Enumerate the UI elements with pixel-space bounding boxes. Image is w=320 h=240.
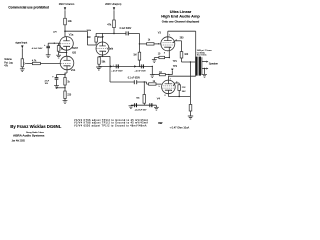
wire V4 plate to transformer: [167, 76, 169, 80]
capacitor 47uF 250V (bias filter A): [110, 64, 119, 68]
ground (V1b cathode): [63, 101, 68, 104]
node V2 plate: [113, 33, 115, 35]
svg-text:4.7uF 250V: 4.7uF 250V: [32, 48, 43, 50]
svg-text:42V: 42V: [53, 31, 57, 33]
svg-text:By Franz Wicklas DG6NL: By Franz Wicklas DG6NL: [10, 124, 61, 129]
svg-text:Speaker: Speaker: [209, 62, 218, 65]
capacitor 0.1uF 630V (lower coupling): [110, 80, 147, 84]
wire cathode sense drop: [189, 97, 191, 117]
svg-text:V3/V4 KT88 adjust TP1/2 to Gro: V3/V4 KT88 adjust TP1/2 to Ground to 45 …: [74, 122, 148, 125]
resistor 56k (V2 cathode): [98, 57, 101, 64]
ground (V2 cathode / bias line): [96, 67, 101, 70]
wire V1a grid bias line: [48, 42, 60, 44]
wire plate node to V2 grid drop: [65, 30, 87, 32]
resistor 4.7k (grid feed): [32, 62, 40, 64]
wire V3 plate to transformer: [167, 31, 169, 36]
svg-text:6W: 6W: [158, 121, 163, 125]
wire coupling drop to V3 grid: [138, 33, 140, 52]
svg-text:+ 47uF 250V: + 47uF 250V: [135, 70, 147, 72]
node feedback injection: [64, 87, 65, 88]
wire to V4 grid stopper: [146, 82, 148, 84]
resistor 0.47 Ohm sense: [189, 105, 192, 112]
svg-text:8: 8: [164, 52, 165, 54]
resistor 220 (V1b cathode lower): [64, 91, 66, 99]
svg-text:V3/V4 KT66 adjust TP1/2 to Gro: V3/V4 KT66 adjust TP1/2 to Ground to 45 …: [74, 119, 148, 122]
wire bias line: [99, 65, 153, 67]
wire 47k to V2 plate node: [113, 28, 115, 34]
resistor 1k (V3 grid stopper): [147, 43, 154, 45]
ground (V4 cathode sense): [188, 116, 193, 119]
node V1a cathode / V1b plate: [66, 52, 67, 53]
transformer T1 output: [195, 31, 202, 76]
svg-text:6SN7: 6SN7: [98, 37, 104, 39]
capacitor 4.7uF 250V (bias): [44, 43, 50, 55]
svg-text:36V: 36V: [182, 91, 186, 93]
capacitor 47uF (V1b cathode bypass): [52, 75, 58, 86]
supply arrow rail 2: [113, 7, 115, 10]
svg-text:Only one Channel displayed: Only one Channel displayed: [162, 20, 200, 24]
resistor 10k (V1a plate load): [64, 18, 67, 25]
svg-text:Commercial use prohibited: Commercial use prohibited: [8, 6, 49, 10]
wire speaker -: [202, 68, 206, 70]
ground (speaker): [202, 74, 207, 77]
wire 4.7k to V1b grid: [40, 63, 60, 65]
svg-text:Pot: Log: Pot: Log: [4, 61, 13, 64]
ground (bottom left): [129, 106, 134, 109]
node V4 grid feed: [144, 81, 145, 82]
svg-text:1M: 1M: [87, 37, 90, 39]
wire V3 screen: [175, 40, 182, 42]
wire V1b cathode: [66, 70, 68, 73]
wire V3 cathode: [168, 51, 170, 58]
resistor 1k (V1b cathode upper): [64, 78, 66, 86]
capacitor 0.47uF (bottom A): [134, 103, 137, 107]
svg-text:V2a/b: V2a/b: [107, 48, 114, 51]
wire V2 plate rail: [96, 32, 126, 34]
wire V4 cathode: [167, 94, 169, 97]
wire UL tap: [182, 61, 196, 63]
svg-text:Sec 8 Ohm: Sec 8 Ohm: [197, 54, 207, 56]
capacitor 0.1uF 630V (top coupling): [126, 31, 139, 35]
wire 2k bottom to cathode node: [58, 51, 60, 52]
svg-text:Volume: Volume: [4, 59, 12, 61]
resistor 47k (V2 plate load): [113, 20, 116, 28]
svg-text:0.1 uF 630V: 0.1 uF 630V: [128, 78, 141, 80]
ground (bias line): [150, 75, 155, 78]
supply arrow rail 1: [64, 7, 66, 10]
ground (2k): [56, 53, 61, 58]
svg-text:+ 0.47 Ohm 10uA: + 0.47 Ohm 10uA: [170, 127, 190, 130]
wire to feedback node: [64, 85, 66, 91]
svg-text:+ 47uF 250V: + 47uF 250V: [111, 70, 123, 72]
resistor 10 (V4 cathode sense): [159, 73, 165, 75]
svg-text:3: 3: [158, 43, 159, 45]
resistor 100 (V3 screen): [180, 52, 183, 58]
resistor 100 (V4 screen): [175, 83, 181, 97]
pentode V3: [158, 35, 177, 55]
svg-text:0.1uF 630V: 0.1uF 630V: [120, 28, 132, 30]
svg-text:V3/V4 6550 adjust TP1/2 to Gro: V3/V4 6550 adjust TP1/2 to Ground to 48m…: [74, 124, 147, 127]
resistor 1M (V2 grid): [95, 37, 98, 43]
wire input to pot: [21, 48, 23, 58]
svg-text:1: 1: [170, 78, 171, 80]
test point arrow: [171, 69, 173, 71]
potentiometer Volume 47k log: [21, 59, 32, 67]
wire 220 to ground: [64, 99, 66, 101]
svg-text:6SN7: 6SN7: [72, 48, 78, 50]
triode V1a: [60, 37, 74, 51]
wire rail1 to R 10k: [64, 10, 66, 18]
triode V1b: [60, 56, 74, 70]
capacitor 47uF 250V (bias filter B): [134, 64, 144, 68]
svg-text:22K: 22K: [182, 87, 186, 89]
svg-text:ABRA Audio Systems: ABRA Audio Systems: [13, 134, 45, 138]
wire bottom bias return: [131, 104, 157, 106]
wire 56k to ground: [98, 64, 100, 66]
wire pot bottom: [21, 67, 23, 69]
wire feedback riser: [189, 62, 191, 97]
resistor 1M (V3 bleeder): [138, 52, 141, 60]
svg-text:260V Utra(Lin): 260V Utra(Lin): [105, 3, 121, 6]
ground (V1b bypass cap): [54, 86, 59, 89]
svg-text:TP1: TP1: [173, 61, 178, 63]
svg-text:1: 1: [169, 35, 170, 37]
wire speaker +: [202, 61, 206, 63]
wire plate node into V1a: [64, 31, 66, 37]
ground (pot): [20, 69, 25, 72]
pentode V4: [159, 78, 178, 97]
svg-text:V1b: V1b: [71, 68, 76, 72]
svg-text:TP2: TP2: [173, 66, 178, 68]
wire secondary to ground: [203, 69, 205, 75]
ground (V3 cathode): [152, 58, 157, 63]
triode V2a/b: [96, 42, 109, 55]
resistor 1k (V4 grid stopper): [149, 83, 156, 85]
svg-text:High End Audio Amp: High End Audio Amp: [161, 13, 200, 18]
node sense: [168, 74, 169, 75]
svg-text:47k: 47k: [107, 22, 112, 26]
svg-text:10k: 10k: [68, 19, 73, 23]
resistor 56k (V4 grid leak): [143, 82, 146, 105]
wire rail2 to R 47k: [113, 10, 115, 20]
svg-text:5: 5: [159, 86, 160, 88]
ground (bias cap): [46, 55, 51, 58]
wire R10k to plate node: [64, 25, 66, 31]
node V1a plate: [64, 30, 66, 32]
wire V2 cathode: [102, 55, 104, 56]
svg-text:8: 8: [165, 95, 166, 97]
input arrow: [21, 45, 23, 48]
capacitor 0.47uF (bottom B): [150, 103, 153, 107]
svg-text:1M: 1M: [133, 55, 136, 57]
svg-text:V1a: V1a: [69, 33, 74, 37]
svg-text:260V Utra/Lin: 260V Utra/Lin: [59, 2, 75, 6]
svg-text:+0.47uF 63V: +0.47uF 63V: [135, 110, 147, 112]
svg-text:Jan 4th 2005: Jan 4th 2005: [12, 139, 26, 142]
wire V2 cathode to lower coupling: [103, 55, 111, 57]
wire feedback line: [56, 87, 65, 89]
resistor 2k (bias): [57, 46, 60, 52]
resistor 10 (V3 cathode sense): [159, 56, 165, 58]
wire sense: [152, 74, 159, 76]
svg-text:signal input: signal input: [15, 42, 27, 45]
ground (bottom right): [154, 105, 159, 110]
node bias: [54, 43, 55, 44]
